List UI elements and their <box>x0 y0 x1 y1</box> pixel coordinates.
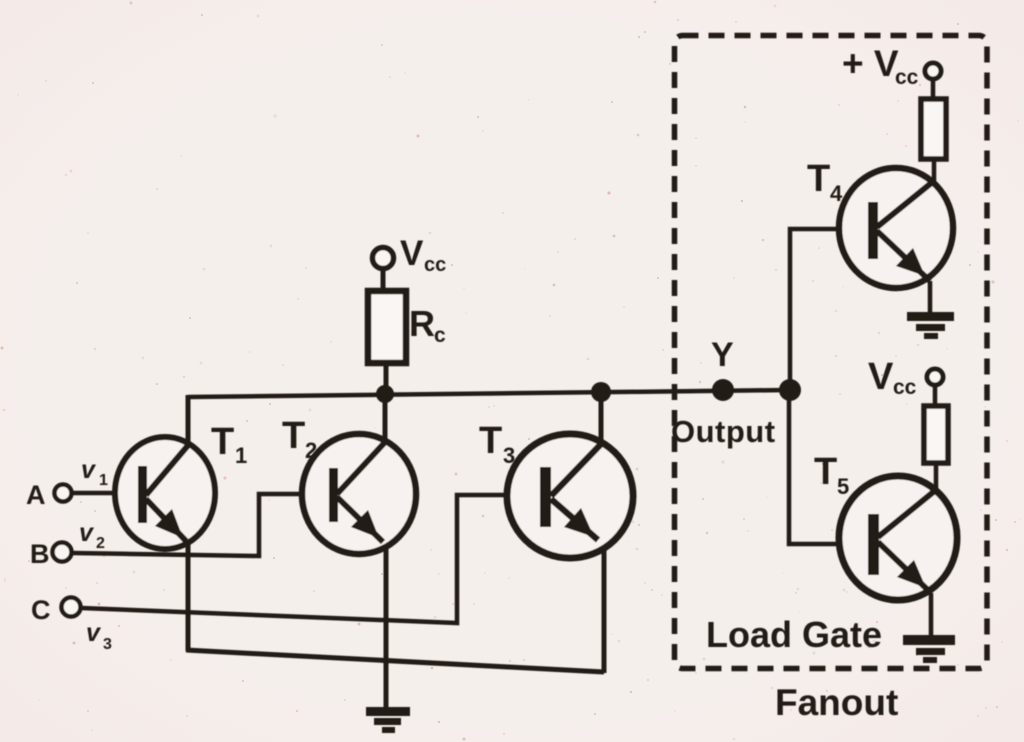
terminal Vcc T5 <box>927 369 943 406</box>
svg-text:B: B <box>30 539 50 569</box>
transistor T2 <box>302 434 416 554</box>
svg-text:5: 5 <box>837 474 849 499</box>
svg-text:4: 4 <box>830 181 843 206</box>
transistor T5 <box>839 476 957 600</box>
wire T2 emitter vertical to ground <box>384 545 389 710</box>
wire T1 collector vertical <box>186 395 191 444</box>
terminal A <box>55 485 72 502</box>
wire T3 collector vertical <box>599 390 604 444</box>
svg-text:T: T <box>479 420 502 462</box>
terminal Vcc top <box>373 248 394 293</box>
resistor Rc <box>368 291 406 363</box>
svg-text:v: v <box>81 456 97 484</box>
svg-text:V: V <box>400 234 424 273</box>
svg-text:Y: Y <box>711 336 734 374</box>
svg-text:v: v <box>79 519 95 547</box>
node Y output <box>712 379 734 401</box>
wire output node to T5 base <box>789 390 871 544</box>
ground T4 <box>907 312 954 339</box>
svg-text:R: R <box>409 303 435 344</box>
wire top collector bus <box>188 390 790 397</box>
wire T3 emitter vertical <box>602 548 607 673</box>
svg-text:Output: Output <box>671 414 776 449</box>
dashed box load gate <box>675 36 988 669</box>
wire T5 emitter to ground <box>929 593 934 636</box>
wire R to T4 collector <box>932 159 937 184</box>
svg-text:cc: cc <box>424 254 446 276</box>
wire Rc to node <box>384 363 389 396</box>
terminal B <box>53 543 72 562</box>
transistor T3 <box>507 434 633 558</box>
svg-text:cc: cc <box>893 376 917 399</box>
svg-text:1: 1 <box>235 443 247 468</box>
wire input A to T1 base <box>72 491 140 496</box>
svg-text:A: A <box>26 480 46 510</box>
svg-text:cc: cc <box>895 66 919 89</box>
wire R to T5 collector <box>934 463 939 492</box>
resistor R T5 <box>924 406 948 463</box>
svg-text:2: 2 <box>305 438 317 463</box>
node load gate input <box>779 379 801 401</box>
svg-text:3: 3 <box>503 443 515 468</box>
transistor T4 <box>839 168 953 288</box>
terminal +Vcc <box>925 63 941 99</box>
node collector of T3 <box>591 382 611 402</box>
svg-text:T: T <box>814 451 837 493</box>
svg-text:Load Gate: Load Gate <box>706 614 882 655</box>
wire T4 emitter to ground <box>928 281 933 313</box>
wire output node to T4 base <box>790 229 871 390</box>
wire input C to T3 base <box>81 495 543 623</box>
transistor T1 <box>115 437 215 549</box>
wire input B to T2 base <box>72 494 332 556</box>
resistor R T4 <box>921 99 946 159</box>
terminal C <box>62 598 81 617</box>
svg-text:C: C <box>31 595 51 625</box>
svg-text:2: 2 <box>96 535 105 552</box>
ground T5 <box>903 635 955 663</box>
svg-text:3: 3 <box>103 636 112 653</box>
svg-text:T: T <box>211 421 234 463</box>
svg-text:c: c <box>434 324 446 347</box>
wire bottom emitter bus <box>186 650 604 672</box>
node collector of T2 <box>376 385 394 403</box>
svg-text:+ V: + V <box>842 43 899 84</box>
wire T2 collector vertical <box>383 396 388 443</box>
svg-text:T: T <box>807 158 830 200</box>
ground main <box>366 707 410 733</box>
svg-text:v: v <box>86 619 102 647</box>
svg-text:1: 1 <box>99 472 108 489</box>
svg-text:V: V <box>868 356 894 398</box>
svg-text:Fanout: Fanout <box>775 682 898 723</box>
wire T1 emitter vertical <box>186 540 191 651</box>
svg-text:T: T <box>282 415 305 457</box>
